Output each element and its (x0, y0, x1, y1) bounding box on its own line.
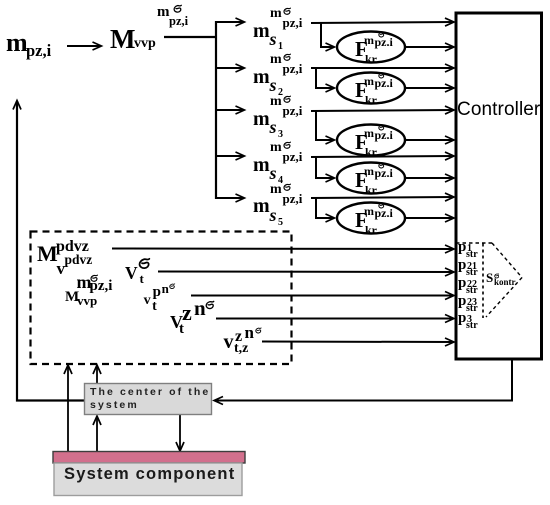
wire: p21 line (158, 271, 454, 274)
node M_vvp^mpz,i (65, 290, 79, 305)
node m_s4 (253, 155, 270, 175)
label p21_str (458, 258, 466, 273)
label F_kr ellipse3 (355, 132, 368, 153)
node V_t (125, 265, 138, 283)
wire: row5 line to controller (311, 197, 454, 198)
wire: center box left feedback up arrow (17, 101, 85, 401)
wire: branch arrow row3 (216, 109, 244, 111)
wire: row4 drop to ellipse (316, 157, 334, 178)
label F_kr ellipse1 (355, 39, 368, 60)
label m_pz,i sup row1 (270, 7, 282, 21)
node m_s3 (253, 109, 270, 129)
wire: branch vertical line (215, 21, 217, 199)
label m_pz,i over M_vvp (77, 273, 92, 291)
label p22_str (458, 276, 466, 291)
ellipse F4 (337, 163, 405, 194)
wire: row4 line to controller (311, 156, 454, 157)
wire: row2 drop to ellipse (316, 68, 334, 88)
wire: row1 line to controller (311, 22, 454, 23)
system component body (54, 463, 242, 496)
node m_s2 (253, 67, 270, 87)
wire: arrow m_pz,i to M_vvp (67, 45, 101, 47)
label F_kr ellipse5 (355, 210, 368, 231)
Controller box (456, 13, 542, 359)
center of the system box (85, 384, 212, 415)
wire: p3 line (262, 341, 454, 344)
label m_pz,i sup row5 (270, 183, 282, 197)
ellipse F2 (337, 73, 405, 104)
wire: M_vvp output to branch vertical (164, 36, 217, 38)
label m_pz,i sup row4 (270, 141, 282, 155)
label F_kr ellipse2 (355, 80, 368, 101)
node v_t^pn (144, 294, 151, 308)
wire: p23 line (216, 318, 454, 320)
wire: branch arrow row2 (216, 67, 244, 69)
wire: branch arrow row4 (216, 155, 244, 157)
label m_pz,i sup row2 (270, 53, 282, 67)
wire: system component up arrow into center box (96, 417, 98, 453)
wire: ellipse F1 out (406, 46, 454, 48)
node v_t,z^zn (224, 332, 234, 352)
block M_vvp (110, 26, 135, 53)
dashed parameter box (31, 232, 292, 365)
wire: p22 line (191, 295, 454, 297)
label m_pz,i sup row3 (270, 95, 282, 109)
dashed selector pentagon (456, 242, 492, 244)
label p23_str (458, 294, 466, 309)
ellipse F3 (337, 125, 405, 156)
node M_v^pdvz (37, 243, 58, 265)
wire: row3 drop to ellipse (316, 111, 334, 140)
wire: system component up arrow into dashed box (67, 366, 69, 453)
wire: row1 drop to ellipse (321, 23, 334, 47)
wire: center box top up arrow into dashed box (96, 366, 98, 385)
wire: row3 line to controller (311, 110, 454, 111)
wire: branch arrow row5 (216, 197, 244, 199)
node m_pz,i (6, 30, 28, 56)
label m_pz,i top (157, 5, 170, 20)
node m_s1 (253, 21, 270, 41)
wire: p1 line (112, 248, 454, 251)
ellipse F1 (337, 32, 405, 63)
label p3_str (458, 311, 466, 326)
node m_s5 (253, 196, 270, 216)
label p1_str (458, 240, 466, 255)
wire: ellipse F5 out (406, 217, 454, 219)
wire: controller bottom feedback to center box (215, 359, 513, 401)
label Controller (457, 100, 540, 119)
wire: row2 line to controller (311, 67, 454, 69)
label s_kontr (486, 271, 493, 284)
label System component (64, 466, 235, 483)
wire: ellipse F2 out (406, 87, 454, 89)
node v_t^zn (170, 313, 183, 331)
label F_kr ellipse4 (355, 170, 368, 191)
wire: branch arrow row1 (216, 21, 244, 23)
wire: ellipse F3 out (406, 139, 454, 141)
ellipse F5 (337, 203, 405, 234)
wire: row5 drop to ellipse (316, 198, 334, 218)
system component pink top bar (53, 452, 245, 464)
wire: center box down arrow to system component (179, 415, 181, 451)
label The center of the system (90, 386, 210, 412)
wire: ellipse F4 out (406, 177, 454, 179)
